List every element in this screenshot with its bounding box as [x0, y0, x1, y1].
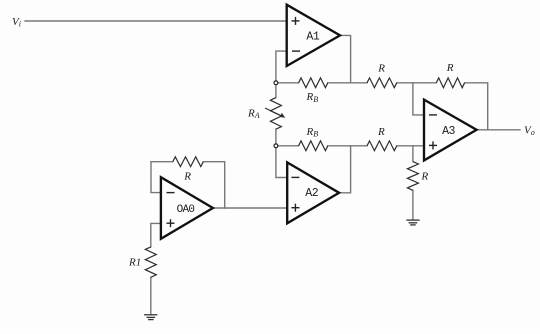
wire node B down to A2 minus [276, 146, 287, 178]
op-amp OA0 [161, 177, 213, 239]
svg-text:R: R [377, 62, 385, 74]
wire RA to node B [275, 129, 277, 146]
wire grounding R junction down [412, 146, 414, 162]
wire Vi input to A1 plus [25, 20, 287, 22]
wire OA0 feedback right down to output [203, 162, 224, 208]
svg-text:OA0: OA0 [177, 204, 195, 216]
wire grounding R to ground [412, 190, 414, 220]
op-amp A2 [287, 162, 339, 223]
wire bottom R to A3 plus [397, 145, 424, 147]
svg-text:R1: R1 [128, 257, 141, 269]
svg-text:A1: A1 [306, 31, 319, 44]
wire OA0 plus down to R1 [151, 223, 161, 247]
op-amp A1 [287, 5, 340, 66]
svg-text:A2: A2 [305, 187, 318, 200]
wire OA0 output to A2 plus [213, 207, 287, 209]
wire A3 minus input [413, 83, 424, 115]
svg-text:R: R [183, 170, 191, 182]
wire OA0 minus to feedback [151, 162, 173, 193]
svg-text:R: R [446, 62, 454, 74]
op-amp A3 [424, 100, 477, 161]
resistor R top first [367, 78, 397, 88]
resistor RB top [299, 78, 328, 88]
wire A2 output up to bottom row [339, 146, 351, 193]
svg-text:R: R [421, 171, 429, 183]
wire A1 output down to top row [340, 35, 351, 82]
resistor R to ground [407, 162, 418, 191]
node A top junction [274, 81, 278, 85]
svg-text:R: R [377, 126, 385, 138]
node B bottom junction [274, 144, 278, 148]
wire top row node A to RB [276, 82, 299, 84]
resistor R1 [145, 247, 156, 277]
wire R1 to ground [150, 277, 152, 314]
wire A3 output to Vo [477, 129, 520, 131]
resistor R OA0 feedback [173, 157, 204, 167]
svg-text:A3: A3 [442, 125, 455, 138]
potentiometer RA [270, 98, 281, 130]
wire top feedback right down to A3 output [465, 83, 488, 130]
ground for R1 [144, 315, 157, 320]
wire bottom RB to bottom R [328, 145, 367, 147]
wire node A to RA [275, 83, 277, 98]
wire A1 minus to node A [276, 51, 287, 83]
wire top row RB to R [328, 82, 367, 84]
wire top row R to A3 minus junction and R feedback [397, 82, 437, 84]
potentiometer RA wiper arrow [265, 108, 285, 118]
resistor R bottom [367, 141, 397, 151]
resistor RB bottom [299, 141, 328, 151]
ground for R [406, 220, 419, 225]
wire node B to bottom RB [276, 145, 299, 147]
resistor R top feedback [436, 78, 464, 88]
